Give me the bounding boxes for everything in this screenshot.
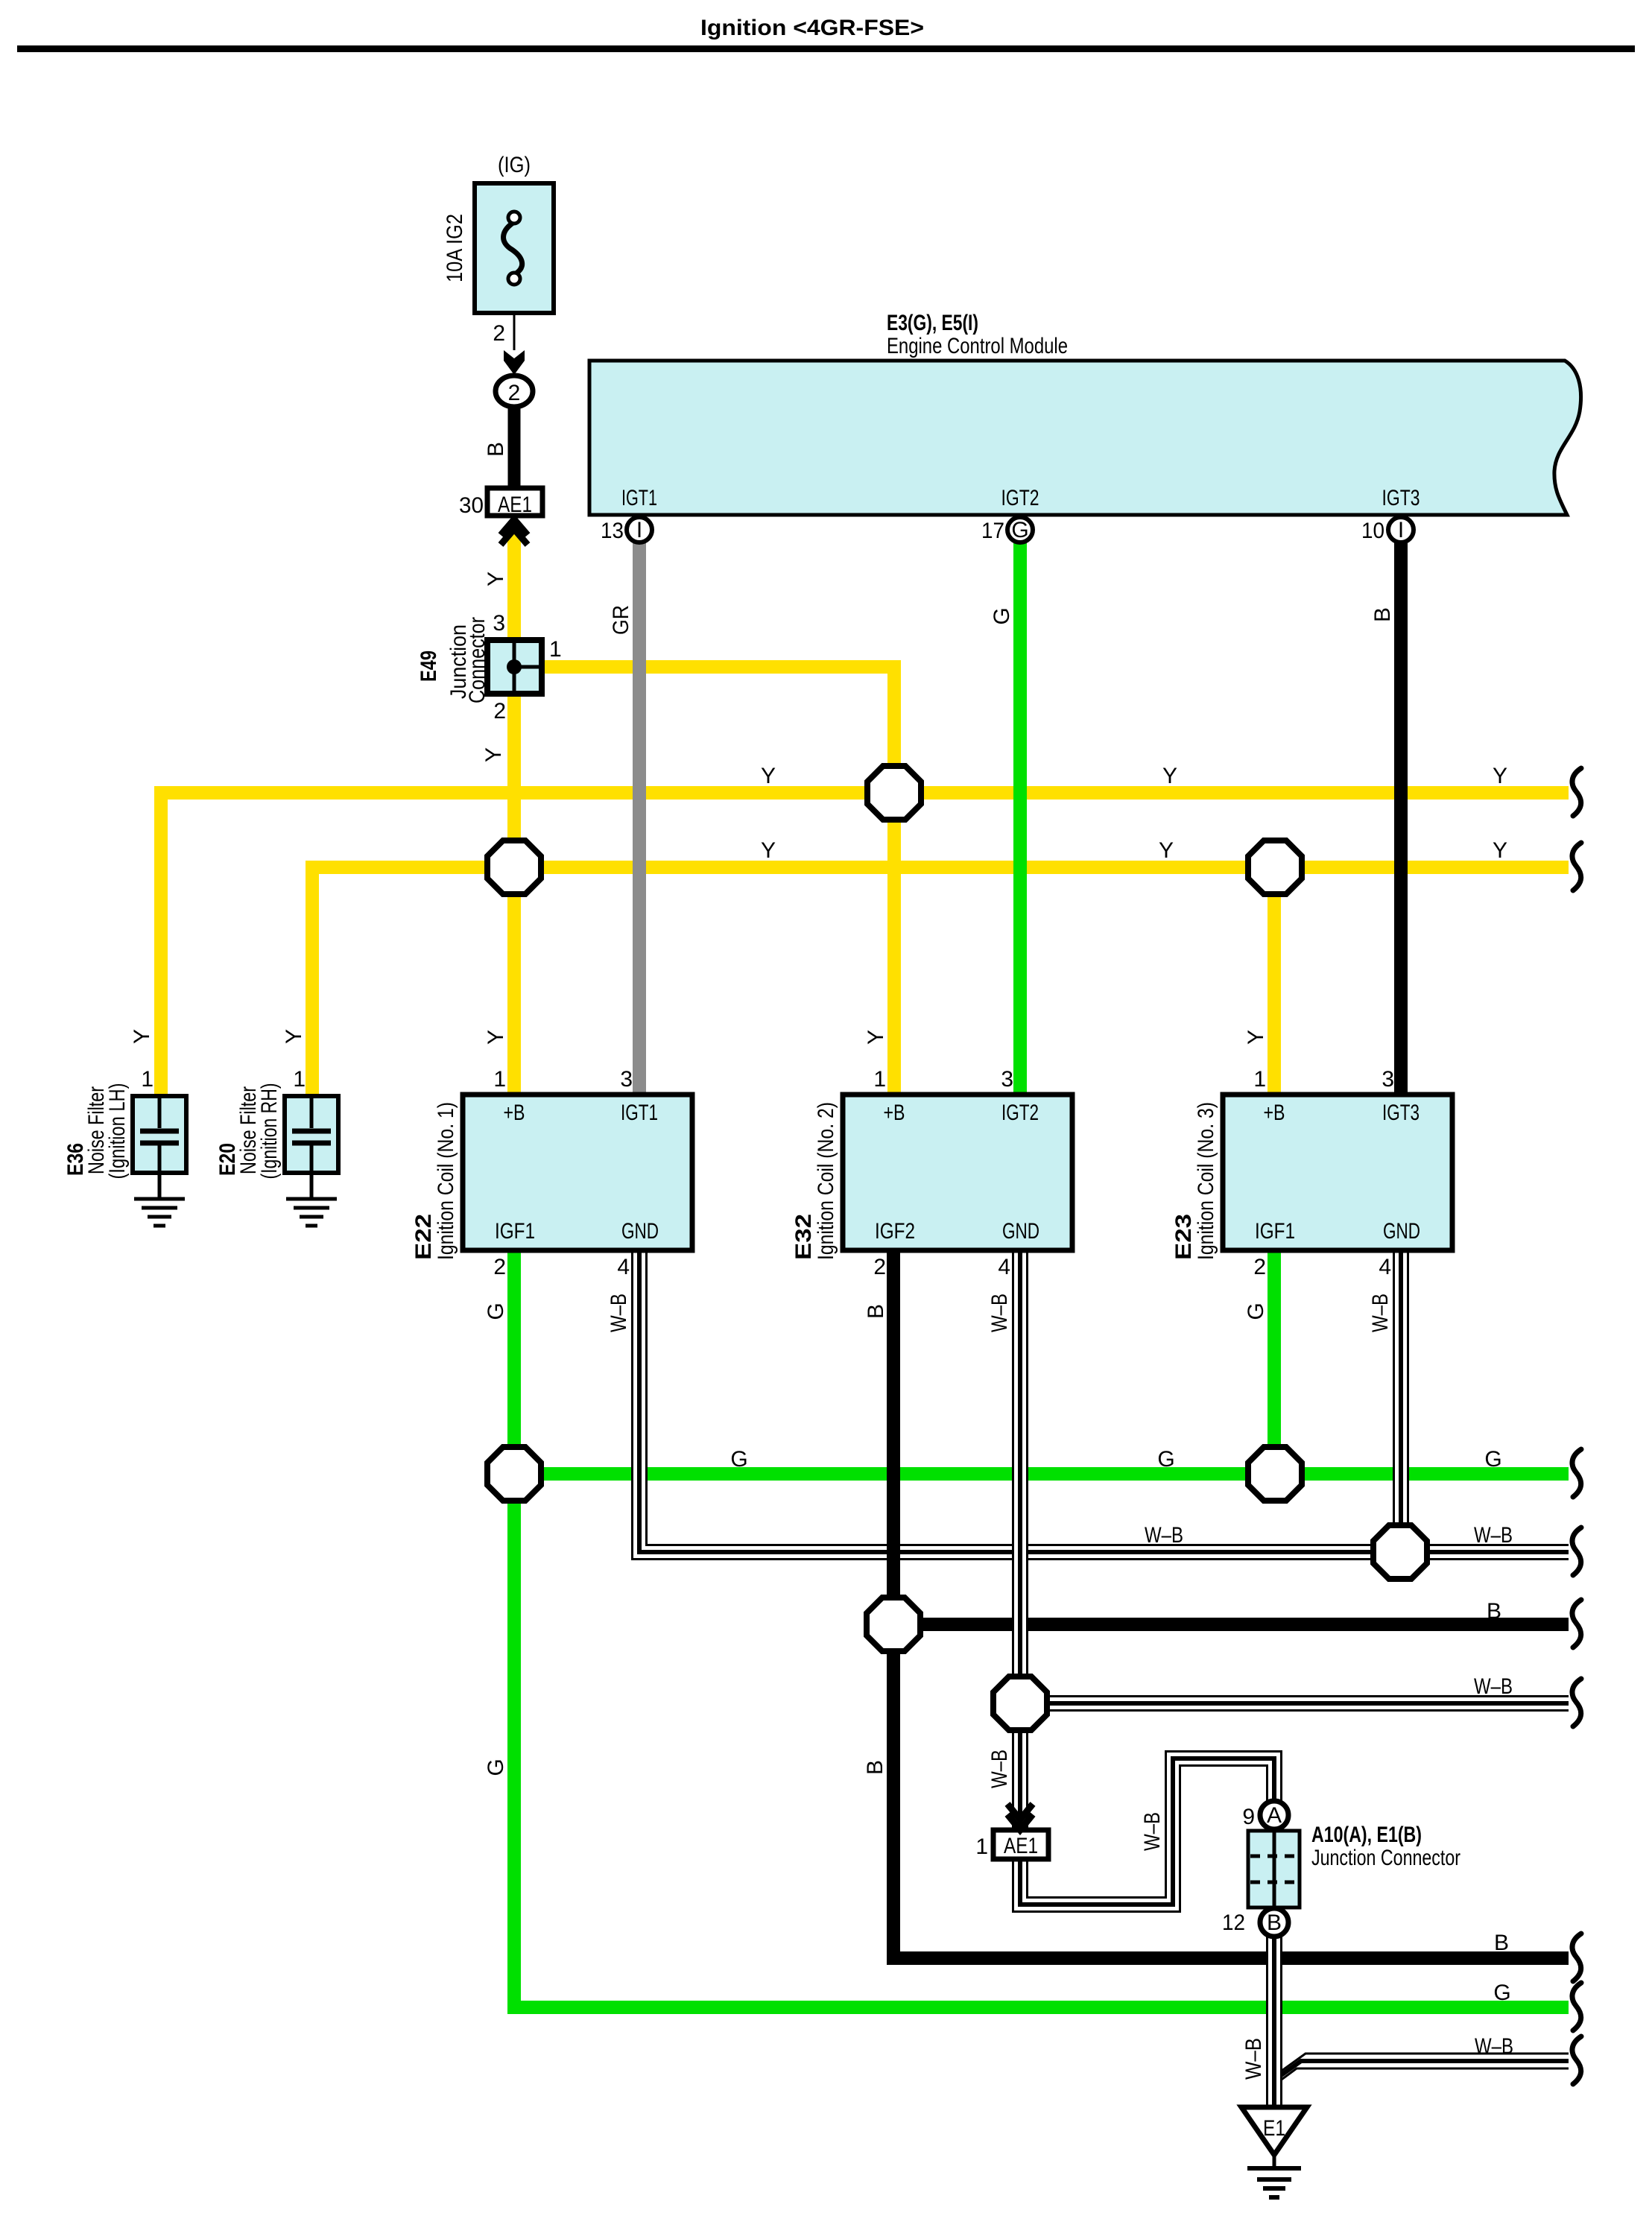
svg-text:G: G [1244,1302,1268,1320]
junction connector A10(A), E1(B) [1248,1831,1300,1908]
junction connector E49 [487,640,542,694]
svg-text:IGT2: IGT2 [1001,486,1039,510]
wire W-B horizontal branch [1020,1695,1569,1712]
wire yellow main vertical AE1 to E22 +B [507,529,521,1098]
svg-text:1: 1 [493,1067,506,1092]
svg-text:1: 1 [141,1067,154,1092]
svg-text:W–B: W–B [1241,2038,1266,2080]
svg-text:30: 30 [459,493,484,518]
svg-text:Y: Y [864,1030,888,1045]
svg-text:G: G [484,1302,508,1320]
svg-text:3: 3 [493,611,505,636]
svg-text:4: 4 [617,1255,630,1279]
svg-text:GR: GR [609,605,633,635]
svg-text:W–B: W–B [987,1294,1012,1332]
svg-text:12: 12 [1222,1910,1245,1935]
wire B horizontal branch [893,1618,1569,1631]
fuse 10A IG2 [475,183,554,313]
svg-text:W–B: W–B [1368,1294,1393,1332]
svg-text:2: 2 [493,699,506,724]
svg-text:A: A [1267,1803,1282,1828]
svg-text:B: B [1494,1931,1509,1955]
svg-text:W–B: W–B [987,1750,1012,1788]
svg-text:10: 10 [1361,519,1384,543]
break symbol green line [1572,1449,1581,1497]
ECM Engine Control Module E3(G), E5(I) [589,361,1581,515]
E36 noise filter (Ignition LH) [133,1096,186,1226]
svg-text:B: B [1370,607,1395,622]
svg-text:1: 1 [975,1834,988,1859]
svg-text:E49: E49 [417,650,441,682]
svg-text:IGT3: IGT3 [1382,1101,1420,1125]
svg-text:IGF1: IGF1 [1255,1219,1295,1244]
svg-text:2: 2 [873,1255,886,1279]
svg-text:G: G [1493,1981,1510,2005]
svg-text:Y: Y [1493,838,1507,863]
svg-text:3: 3 [620,1067,633,1092]
svg-text:1: 1 [1253,1067,1266,1092]
ignition coil (No. 2) E32 [843,1095,1072,1250]
connector oval 2 [496,376,533,407]
svg-text:GND: GND [1383,1219,1420,1244]
junction octagon green line / E22 IGF1 wire [487,1447,541,1501]
wire W-B branch to right edge [1275,2054,1569,2083]
svg-text:+B: +B [1264,1101,1285,1125]
svg-text:2: 2 [508,381,521,405]
svg-text:1: 1 [873,1067,886,1092]
svg-text:1: 1 [293,1067,306,1092]
ignition coil (No. 1) E22 [463,1095,692,1250]
wire B from fuse connector to AE1 [508,406,521,492]
arrow into connector 2 [504,350,525,375]
junction octagon W-B line / E32 GND wire [993,1677,1047,1730]
wire B from E32 IGF2 down and right [893,1246,1569,1958]
connector 30 AE1 [487,488,542,516]
svg-text:(Ignition RH): (Ignition RH) [257,1083,282,1180]
svg-text:G: G [1484,1447,1501,1472]
svg-text:Y: Y [761,838,776,863]
junction octagon B line / E32 IGF2 wire [867,1598,920,1651]
ground symbol E1 [1247,2168,1301,2197]
svg-text:A10(A), E1(B): A10(A), E1(B) [1311,1823,1422,1847]
junction connector pin A circle [1260,1801,1288,1829]
wire yellow drop to E23 +B [1268,867,1281,1098]
wire W-B from E32 GND through AE1 to junction connector pin A [1020,1246,1274,1905]
svg-text:E3(G), E5(I): E3(G), E5(I) [887,311,978,335]
svg-text:Y: Y [481,747,506,762]
svg-text:IGT2: IGT2 [1001,1101,1039,1125]
break symbol B line [1572,1600,1581,1647]
svg-text:G: G [1011,518,1028,542]
svg-text:Ignition Coil (No. 2): Ignition Coil (No. 2) [814,1102,838,1260]
svg-text:1: 1 [549,637,562,662]
svg-text:2: 2 [493,321,505,346]
svg-text:B: B [1487,1599,1501,1624]
svg-text:Engine Control Module: Engine Control Module [887,334,1068,358]
svg-text:G: G [484,1758,508,1776]
svg-text:G: G [730,1447,747,1472]
wire green from E22 IGF1 down and right (G) [514,1246,1569,2007]
svg-text:Y: Y [1493,764,1507,788]
svg-text:IGF1: IGF1 [495,1219,535,1244]
junction octagon W-B line / E23 GND wire [1373,1525,1427,1579]
ground E1 triangle [1241,2107,1307,2197]
header rule [17,45,1635,52]
ground symbol below E36 [134,1199,185,1226]
svg-text:IGT1: IGT1 [621,486,657,510]
svg-text:3: 3 [1001,1067,1013,1092]
ECM pin 10 IGT3 [1388,517,1414,542]
svg-text:W–B: W–B [607,1294,631,1332]
break symbol green line 2 [1572,1983,1581,2030]
svg-text:+B: +B [884,1101,905,1125]
svg-text:10A IG2: 10A IG2 [443,214,467,282]
svg-text:Y: Y [761,764,776,788]
svg-text:2: 2 [1253,1255,1266,1279]
svg-text:B: B [484,442,508,457]
wire W-B from E22 GND, horizontal W-B line [639,1246,1569,1552]
wire GR from ECM IGT1 pin 13 to E22 IGT1 [633,541,646,1098]
svg-text:AE1: AE1 [498,493,532,517]
break symbol W-B line 3 [1572,2036,1581,2084]
ECM pin 17 IGT2 [1007,517,1033,542]
wire W-B from junction connector pin B to ground E1 [1266,1936,1282,2109]
ground symbol below E20 [286,1199,337,1226]
svg-text:Y: Y [130,1029,154,1044]
svg-text:W–B: W–B [1474,1674,1513,1699]
wire yellow horizontal line 2 (to E20 noise filter) [312,867,1569,1100]
svg-text:17: 17 [981,519,1004,543]
break symbol W-B line 2 [1572,1679,1581,1726]
svg-text:B: B [863,1760,887,1775]
svg-text:IGF2: IGF2 [875,1219,915,1244]
svg-text:G: G [990,607,1014,624]
break symbol yellow line 1 [1572,768,1581,816]
wire G from ECM IGT2 pin 17 to E32 IGT2 [1013,541,1027,1098]
svg-text:Ignition <4GR-FSE>: Ignition <4GR-FSE> [700,16,924,40]
svg-text:4: 4 [998,1255,1010,1279]
svg-text:Y: Y [1162,764,1177,788]
svg-text:G: G [1157,1447,1174,1472]
svg-text:I: I [1398,518,1404,542]
junction octagon yellow line 2 / drop to E23 +B [1248,840,1302,894]
svg-text:E22: E22 [411,1214,436,1260]
chevron arrows down into AE1 [1007,1804,1033,1830]
svg-text:4: 4 [1379,1255,1391,1279]
wire B from ECM IGT3 pin 10 to E23 IGT3 [1394,541,1408,1098]
svg-text:W–B: W–B [1475,2034,1513,2059]
chevron arrows up into AE1 [501,519,528,545]
svg-text:E32: E32 [791,1214,816,1260]
svg-text:(Ignition LH): (Ignition LH) [105,1083,130,1180]
svg-text:GND: GND [621,1219,659,1244]
svg-text:I: I [636,518,642,542]
svg-text:3: 3 [1382,1067,1394,1092]
svg-text:13: 13 [601,519,624,543]
junction connector pin B circle [1260,1908,1288,1937]
svg-text:B: B [864,1304,888,1319]
svg-text:E23: E23 [1171,1214,1196,1260]
svg-text:Y: Y [1159,838,1174,863]
svg-text:E1: E1 [1263,2116,1285,2141]
svg-text:IGT3: IGT3 [1382,486,1420,510]
wire green from E23 IGF1 [1268,1246,1281,1474]
svg-text:Junction Connector: Junction Connector [1311,1846,1460,1870]
svg-text:IGT1: IGT1 [621,1101,658,1125]
break symbol W-B line [1572,1527,1581,1575]
connector 1 AE1 (bottom) [993,1830,1048,1859]
break symbol yellow line 2 [1572,843,1581,890]
svg-text:+B: +B [504,1101,525,1125]
svg-text:Y: Y [484,1030,508,1045]
ignition coil (No. 3) E23 [1223,1095,1452,1250]
junction octagon green line / E23 IGF1 wire [1248,1447,1302,1501]
E20 noise filter (Ignition RH) [285,1096,338,1226]
break symbol B line 2 [1572,1934,1581,1981]
wire W-B from E23 GND [1393,1246,1409,1552]
svg-text:Y: Y [1244,1030,1268,1045]
svg-text:(IG): (IG) [498,153,531,177]
svg-text:Y: Y [484,572,508,586]
svg-text:GND: GND [1002,1219,1039,1244]
svg-text:Ignition Coil (No. 3): Ignition Coil (No. 3) [1194,1102,1218,1260]
svg-text:W–B: W–B [1474,1523,1513,1548]
svg-text:Y: Y [282,1029,306,1044]
svg-text:Connector: Connector [465,617,490,703]
wire green horizontal line G [514,1467,1569,1481]
svg-text:B: B [1267,1910,1282,1935]
junction octagon yellow line 1 / drop to E32 +B [867,766,921,820]
svg-text:W–B: W–B [1145,1523,1183,1548]
svg-text:Ignition Coil (No. 1): Ignition Coil (No. 1) [434,1102,458,1260]
wire yellow horizontal line 1 (to E36 noise filter) [161,793,1569,1100]
wire yellow from E49 pin 1 to E32 +B [542,667,894,1098]
svg-text:AE1: AE1 [1004,1834,1038,1858]
svg-text:2: 2 [493,1255,506,1279]
svg-text:W–B: W–B [1140,1812,1165,1851]
wire fuse pin 2 lead [513,311,516,350]
svg-text:9: 9 [1242,1805,1255,1829]
ECM pin 13 IGT1 [627,517,652,542]
junction octagon yellow line 2 / main vertical [487,840,541,894]
